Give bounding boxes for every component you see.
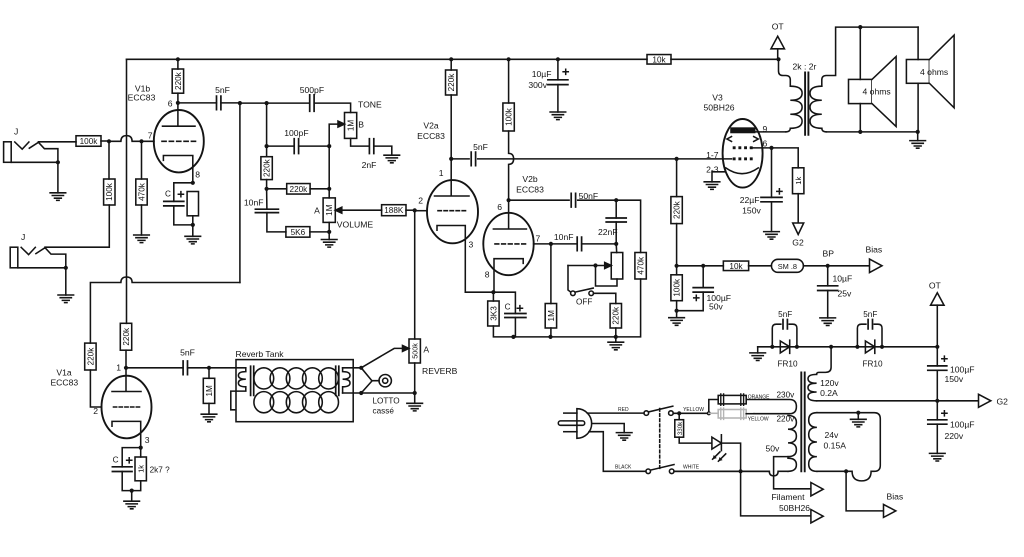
svg-text:G2: G2 <box>997 396 1009 406</box>
junction tone node a <box>265 101 269 105</box>
capacitor 100pF <box>294 139 298 154</box>
V3 screen grid dots <box>733 146 736 149</box>
svg-text:10µF: 10µF <box>532 69 552 79</box>
wire 22nF top <box>615 200 617 218</box>
wire plug gnd wire <box>592 424 625 433</box>
reverb spring bottom <box>254 392 274 413</box>
svg-text:ECC83: ECC83 <box>128 93 156 103</box>
svg-text:220k: 220k <box>447 73 456 92</box>
OT primary bottom <box>786 128 791 132</box>
svg-text:J: J <box>21 232 25 242</box>
pentode V3 envelope <box>723 119 763 188</box>
svg-text:V1a: V1a <box>56 368 72 378</box>
wire 22uF stem <box>771 148 773 198</box>
wire y282 with hop <box>90 277 240 343</box>
ground 22uF <box>764 232 780 240</box>
winding primary mid winding <box>788 416 796 457</box>
svg-text:100k: 100k <box>80 137 99 146</box>
wire 10nF to 5K6 <box>267 213 286 232</box>
junction V2a grid node <box>413 208 417 212</box>
input jack J1 <box>4 142 12 163</box>
triode V2a envelope <box>427 180 478 243</box>
svg-text:2nF: 2nF <box>362 160 377 170</box>
junction fuse node <box>707 411 711 415</box>
svg-text:8: 8 <box>195 170 200 180</box>
V1b plate <box>163 103 196 126</box>
ground jack2 <box>58 295 74 303</box>
wire WHITE wire <box>674 470 769 472</box>
polarity + 100uF50 <box>694 295 699 300</box>
wire spk2 top wire <box>917 27 919 59</box>
resistor 330k <box>675 420 684 438</box>
fuse YELLOW (grey) <box>709 408 746 419</box>
ground 10uF 300v <box>550 112 566 120</box>
wire V2b cath cap branch <box>493 292 515 313</box>
switch OFF contact a <box>571 291 576 296</box>
wire node to tank <box>209 367 246 369</box>
V1b cathode <box>163 156 192 183</box>
V2a cathode <box>437 226 465 293</box>
svg-text:0.2A: 0.2A <box>820 388 838 398</box>
wire 50nF wire a <box>509 199 569 201</box>
wire B+ left drop <box>126 59 128 323</box>
junction 50nF node <box>614 198 618 202</box>
connector arrow Bias arrow <box>870 259 883 273</box>
wire spk1 bottom wire <box>859 104 861 132</box>
junction yellow node <box>677 411 681 415</box>
polarity + C V1a <box>127 458 132 463</box>
capacitor 5nF bypass b <box>868 320 872 329</box>
V3 control grid dots <box>733 157 736 160</box>
wire volume bottom <box>328 222 330 239</box>
primary 230-220 tab <box>746 400 796 414</box>
wire pin6 to 5nF <box>178 102 217 104</box>
junction rail node OT <box>776 57 780 61</box>
V2b cathode <box>494 259 523 293</box>
primary bottom wire hop <box>674 471 788 476</box>
svg-text:2k7 ?: 2k7 ? <box>150 466 170 475</box>
capacitor 22uF 150v <box>761 197 782 201</box>
svg-text:1: 1 <box>439 168 444 178</box>
svg-text:3: 3 <box>469 240 474 250</box>
junction 470k tap <box>139 139 143 143</box>
junction spk bottom right node <box>916 130 920 134</box>
OT secondary bottom <box>822 128 827 132</box>
wire 50nF to 470k <box>616 200 640 252</box>
svg-text:Bias: Bias <box>887 492 904 502</box>
wire V3 plate wire <box>755 131 786 133</box>
wire spk1 top wire <box>859 27 861 79</box>
wire 220k tone bottom <box>266 180 268 189</box>
wire node to 100k shunt <box>108 141 110 179</box>
wire 2nF to gnd <box>375 146 392 155</box>
connector arrow OT arrow right <box>931 293 945 306</box>
svg-text:25v: 25v <box>838 289 853 299</box>
wire grid node to pot <box>414 210 416 339</box>
junction bias node <box>675 264 679 268</box>
wire 100uF150 stem <box>936 347 938 366</box>
wire 100k V2b top <box>508 59 510 103</box>
winding OT primary <box>790 86 802 128</box>
wire 10uF300 stem <box>557 59 559 80</box>
switch mains a contact 1 <box>644 411 649 416</box>
wire tank out top <box>343 367 362 369</box>
svg-text:50BH26: 50BH26 <box>779 503 810 513</box>
svg-text:330k: 330k <box>677 421 684 435</box>
reverb tank box <box>236 360 353 422</box>
polarity + 10uF300 <box>563 69 568 74</box>
svg-text:BP: BP <box>823 249 835 259</box>
junction FR10b right <box>880 345 884 349</box>
V2b plate <box>493 200 526 229</box>
wire OT right stem <box>936 305 938 347</box>
switch mains b contact 1 <box>646 469 651 474</box>
junction 1M node <box>207 366 211 370</box>
capacitor C V1a cathode <box>112 467 132 472</box>
switch mains a contact 2 <box>669 411 674 416</box>
svg-text:500pF: 500pF <box>300 85 324 95</box>
svg-text:6: 6 <box>168 99 173 109</box>
svg-text:100µF: 100µF <box>950 420 975 430</box>
junction 5nF out node <box>238 101 242 105</box>
resistor 10k rail <box>647 55 671 65</box>
junction white node <box>739 469 743 473</box>
junction volume top node <box>327 187 331 191</box>
svg-text:1-7: 1-7 <box>706 150 719 160</box>
wire jack2 ground stem <box>65 268 67 295</box>
ground 2nF <box>384 155 400 163</box>
winding 24v winding <box>809 413 817 472</box>
diode FR10 a <box>780 340 789 353</box>
pilot diode arrows <box>713 452 726 461</box>
ground 24v center <box>851 419 867 427</box>
svg-text:5nF: 5nF <box>863 310 877 319</box>
svg-text:7: 7 <box>148 131 153 141</box>
svg-text:SM .8: SM .8 <box>778 262 797 271</box>
svg-text:TONE: TONE <box>358 100 382 110</box>
resistor V1b cathode resistor <box>187 192 198 216</box>
wire 188K to grid node <box>406 209 415 211</box>
svg-text:10nF: 10nF <box>554 232 574 242</box>
wire depth wiper <box>568 265 605 267</box>
svg-text:220k: 220k <box>673 200 682 219</box>
junction bias tap node <box>844 469 848 473</box>
V1a grid <box>114 406 140 408</box>
FR10b bypass loop <box>857 324 882 347</box>
V2a grid <box>438 210 466 212</box>
wire 100uF150 bottom <box>936 370 938 401</box>
ground speaker <box>910 141 926 149</box>
svg-text:1k: 1k <box>137 465 146 473</box>
wire V1a cath cap branch <box>122 448 141 467</box>
resistor 470k grid leak <box>136 179 147 205</box>
svg-text:120v: 120v <box>820 378 839 388</box>
wire spk gnd stem <box>917 132 919 141</box>
wire 100pF to wiper node <box>299 145 330 147</box>
svg-text:C: C <box>113 456 119 465</box>
potentiometer depth pot <box>611 253 623 280</box>
wire 220k V2a bottom <box>450 95 452 159</box>
svg-text:100k: 100k <box>105 182 114 201</box>
mains plug pin top <box>564 412 577 414</box>
junction 100pF left node <box>265 144 269 148</box>
svg-text:300v: 300v <box>528 80 547 90</box>
resistor 188K <box>382 205 406 216</box>
resistor 5K6 <box>286 227 310 238</box>
junction input node <box>107 139 111 143</box>
capacitor 5nF bypass a <box>783 320 787 329</box>
24v loop <box>817 413 880 481</box>
svg-text:0.15A: 0.15A <box>824 441 847 451</box>
OT secondary top <box>822 27 918 86</box>
wire to 500pF <box>267 102 309 104</box>
wire 470k top <box>141 141 143 179</box>
wire orange fuse feed <box>709 400 718 414</box>
junction V1a plate node <box>124 366 128 370</box>
wire cathode cap bottom <box>174 206 193 225</box>
resistor 220k V1a plate <box>120 323 131 350</box>
wire spk2 bottom wire <box>917 83 919 132</box>
wire tone wiper <box>329 124 338 146</box>
svg-text:220k: 220k <box>122 327 131 346</box>
svg-text:ECC83: ECC83 <box>50 377 78 387</box>
wire 1M bottom <box>208 403 210 414</box>
svg-text:REVERB: REVERB <box>422 366 458 376</box>
switch OFF contact b <box>589 291 594 296</box>
wire 100k bias top <box>676 266 678 275</box>
junction HT right node <box>935 345 939 349</box>
tank input core <box>251 366 254 395</box>
wire 1M V2b bottom <box>550 328 552 337</box>
capacitor C V1b cathode <box>164 201 184 206</box>
wire wiper node down <box>328 146 330 198</box>
wire 220k tone top <box>266 146 268 157</box>
connector arrow filament arrow 1 <box>811 483 823 496</box>
wire FR10a gnd stem <box>757 347 759 353</box>
svg-text:100pF: 100pF <box>284 128 308 138</box>
junction 100uF50 node <box>701 264 705 268</box>
wire 220k mid left <box>267 188 287 190</box>
wire 50nF wire b <box>578 199 617 201</box>
svg-text:C: C <box>165 190 171 199</box>
wire FR10a gnd wire <box>758 346 773 348</box>
svg-text:150v: 150v <box>742 205 761 215</box>
wire jack1 ground stem <box>57 162 59 193</box>
wire 50BH26 heater wire <box>741 471 811 516</box>
svg-text:22µF: 22µF <box>740 195 760 205</box>
wire FR10b span <box>857 346 882 348</box>
junction V2a plate node <box>449 157 453 161</box>
svg-text:C: C <box>505 303 511 312</box>
wire switch to 220k <box>594 293 616 303</box>
svg-text:10k: 10k <box>729 262 743 271</box>
connector arrow Bias arrow power <box>884 504 896 517</box>
wire 10uF25 stem <box>827 266 829 286</box>
wire 100k bias bottom <box>676 301 678 311</box>
wire V2b gnd stem <box>615 337 617 342</box>
potentiometer volume pot 1M <box>323 198 335 223</box>
V3 cathode <box>726 168 759 174</box>
wire 3K3 top <box>492 292 494 301</box>
svg-text:G2: G2 <box>792 238 804 248</box>
svg-text:3K3: 3K3 <box>489 306 498 321</box>
svg-text:A: A <box>423 345 429 355</box>
capacitor 50nF <box>571 193 575 207</box>
wire 220k V2b bottom <box>615 328 617 337</box>
svg-text:7: 7 <box>536 234 541 244</box>
svg-text:220k: 220k <box>263 158 272 177</box>
wire V2b cath cap bottom <box>514 318 516 337</box>
ground jack1 <box>50 193 66 201</box>
junction cath rail node <box>511 335 515 339</box>
junction jack1 sleeve <box>56 160 60 164</box>
junction rail node V2a <box>449 57 453 61</box>
wire doubler out wire <box>882 346 937 348</box>
V2a plate <box>435 159 470 196</box>
svg-text:10k: 10k <box>652 55 666 64</box>
wire FR10a span <box>772 346 797 348</box>
capacitor 500pF <box>310 95 314 111</box>
wire jack1 to R 100k <box>38 141 76 143</box>
junction rail node 10uF <box>556 57 560 61</box>
wire 100uF50 bottom <box>677 292 704 311</box>
junction BP node <box>826 264 830 268</box>
wiper arrow depth wiper <box>605 263 612 269</box>
svg-text:6: 6 <box>497 202 502 212</box>
junction B+ node V1b <box>176 57 180 61</box>
svg-text:4 ohms: 4 ohms <box>863 87 891 97</box>
junction 100pF right node <box>327 144 331 148</box>
wire reverb gnd stem <box>414 393 416 403</box>
wire OT secondary bottom rail <box>826 131 918 133</box>
svg-text:Filament: Filament <box>772 492 806 502</box>
wire tank out bottom <box>343 392 415 394</box>
switch mains b arm <box>651 465 675 471</box>
capacitor C V2b cathode <box>505 314 526 318</box>
tank output coil <box>343 368 350 393</box>
switch mains a arm <box>649 406 673 412</box>
wire 100uF220 bottom <box>936 424 938 453</box>
wire diode to white node <box>721 443 740 471</box>
wire 50v tap <box>774 457 811 489</box>
junction spk1 bottom node <box>858 130 862 134</box>
junction bias gnd node <box>675 309 679 313</box>
connector arrow G2 arrow <box>979 394 991 407</box>
potentiometer tone pot 1M <box>345 113 357 139</box>
svg-text:OT: OT <box>772 22 785 32</box>
junction spk1 top node <box>858 25 862 29</box>
svg-text:FR10: FR10 <box>778 360 798 369</box>
V3 screen chevrons <box>727 137 758 142</box>
junction doubler center <box>829 345 833 349</box>
junction 220k bottom node <box>265 187 269 191</box>
connector arrow OT arrow <box>771 36 785 49</box>
wire node to 500pF <box>240 102 267 104</box>
wire switch feed <box>568 266 571 293</box>
wire V1a cath res top <box>140 448 142 457</box>
svg-text:5nF: 5nF <box>215 85 230 95</box>
ground V3 cathode <box>704 182 720 190</box>
wire 22nF bottom <box>615 222 617 244</box>
svg-text:8: 8 <box>485 270 490 280</box>
wire 100uF50 stem <box>702 266 704 288</box>
wire 220k bias top <box>676 159 678 197</box>
svg-text:V2a: V2a <box>423 121 439 131</box>
wire RED wire <box>587 412 644 414</box>
winding primary bottom winding <box>788 458 796 471</box>
resistor 220k V2a plate <box>446 70 457 95</box>
capacitor 22nF <box>606 218 626 222</box>
switch mains b contact 2 <box>669 469 674 474</box>
wire 100uF220 stem <box>936 401 938 420</box>
V3 plate <box>731 128 755 132</box>
wire 1k feed <box>772 148 799 168</box>
svg-text:V2b: V2b <box>522 174 538 184</box>
junction bias feed node <box>675 157 679 161</box>
wire bias row b <box>749 265 772 267</box>
capacitor 10nF V2b <box>577 237 581 251</box>
junction 220k bottom node <box>614 335 618 339</box>
svg-text:B: B <box>358 120 364 130</box>
wire 220k plate to node <box>125 350 127 368</box>
wire bias tap wire <box>846 471 883 511</box>
wire 5nF to node <box>221 102 240 104</box>
wiper arrow tone wiper <box>338 121 345 127</box>
wiper arrow volume wiper <box>335 207 342 213</box>
capacitor 100uF 50v <box>693 288 713 293</box>
svg-text:22nF: 22nF <box>598 227 618 237</box>
svg-text:220v: 220v <box>945 431 964 441</box>
polarity + 22uF <box>777 189 782 194</box>
potentiometer reverb pot 500k <box>409 339 420 363</box>
wire bias row c <box>803 265 869 267</box>
resistor 100k shunt <box>104 179 115 205</box>
svg-text:ECC83: ECC83 <box>516 185 544 195</box>
wire tone pot to 2nF <box>351 138 369 146</box>
120v winding feed <box>817 347 832 375</box>
wire 10nF V2b wire b <box>582 243 617 245</box>
wire node a down <box>266 103 268 146</box>
junction V2b cathode node <box>491 290 495 294</box>
junction 1M bottom node <box>548 335 552 339</box>
wire doubler mid wire <box>797 346 858 348</box>
svg-text:230v: 230v <box>777 390 796 399</box>
junction rail node 100k <box>507 57 511 61</box>
mains plug pin gnd <box>558 421 584 425</box>
resistor 220k V1b plate <box>172 69 183 93</box>
connector arrow G2 screen <box>793 223 804 235</box>
svg-text:5K6: 5K6 <box>291 228 306 237</box>
svg-text:1: 1 <box>116 363 121 373</box>
capacitor 5nF V2a out <box>471 152 475 166</box>
resistor 220k bias <box>671 197 682 224</box>
wire 10uF300 bottom <box>557 85 559 112</box>
junction V1a gnd node <box>130 489 134 493</box>
svg-text:1M: 1M <box>547 310 556 322</box>
junction depth wiper node <box>593 263 597 267</box>
svg-text:188K: 188K <box>384 206 404 215</box>
svg-text:6: 6 <box>763 139 768 149</box>
svg-text:100k: 100k <box>673 278 682 297</box>
V1a plate <box>112 368 141 392</box>
wire 330k top <box>678 413 680 419</box>
wire 330k to diode <box>679 437 712 443</box>
junction tank out top <box>359 366 363 370</box>
svg-text:5nF: 5nF <box>473 142 488 152</box>
speaker 2 <box>906 60 929 84</box>
junction 24v gnd node <box>856 411 860 415</box>
capacitor 100uF 150v <box>928 366 947 370</box>
